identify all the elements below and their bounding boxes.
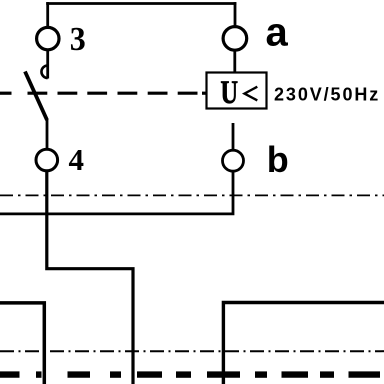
wire drop to terminal a: [234, 2, 237, 26]
wire blade to terminal 4: [46, 119, 49, 150]
terminal 4: [36, 149, 58, 171]
svg-text:3: 3: [70, 21, 86, 58]
label < inside release box: [245, 87, 258, 101]
terminal 3: [37, 27, 59, 49]
svg-text:U: U: [221, 75, 239, 111]
wire terminal a to release box: [233, 50, 236, 73]
wire top bus between terminal 3 and terminal a: [46, 2, 236, 5]
right device box corner: [223, 303, 384, 384]
left device box corner: [0, 303, 44, 384]
mechanical linkage dashed line to release: [0, 92, 207, 95]
switch blade: [25, 72, 47, 121]
switch fixed contact hook: [41, 66, 47, 79]
svg-text:230V/50Hz: 230V/50Hz: [274, 84, 380, 104]
wire stub below terminal 3: [46, 49, 49, 79]
svg-text:4: 4: [69, 142, 85, 177]
terminal b: [223, 150, 244, 171]
wire release box to terminal b (with scan gap): [232, 123, 235, 150]
terminal a: [223, 27, 247, 51]
wire from terminal 4 down with jog to bottom edge: [47, 171, 133, 384]
thick dashed enclosure line bottom: [0, 371, 380, 377]
wire drop to terminal 3: [46, 2, 49, 27]
svg-text:a: a: [266, 10, 289, 54]
wire from terminal b down and left to edge: [0, 171, 234, 214]
boundary dash-dot line lower: [0, 350, 384, 352]
boundary dash-dot line upper: [0, 194, 384, 196]
svg-text:b: b: [267, 139, 289, 180]
undervoltage release U< box: [207, 73, 267, 109]
